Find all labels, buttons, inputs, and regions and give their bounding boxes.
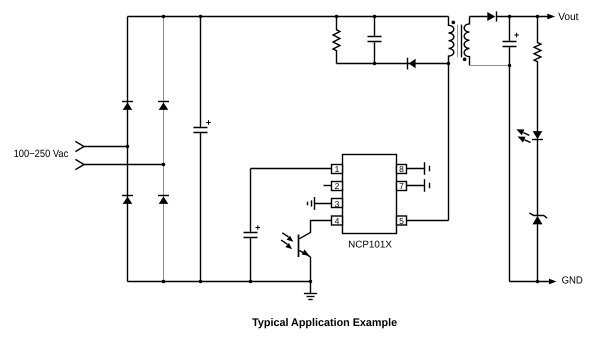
svg-text:100−250 Vac: 100−250 Vac [14,148,69,160]
svg-text:3: 3 [335,199,340,209]
svg-text:1: 1 [335,164,340,174]
svg-text:8: 8 [399,164,404,174]
svg-text:7: 7 [399,181,404,191]
svg-text:2: 2 [335,181,340,191]
svg-text:5: 5 [399,216,404,226]
svg-text:Typical Application Example: Typical Application Example [252,317,397,329]
svg-text:Vout: Vout [558,11,578,23]
svg-text:4: 4 [335,216,340,226]
svg-text:GND: GND [562,276,583,287]
svg-text:NCP101X: NCP101X [348,239,392,250]
